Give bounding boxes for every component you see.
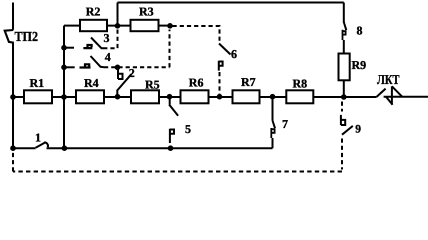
wire main row segment 2 [52,96,76,98]
resistor R2 [80,20,107,31]
svg-text:8: 8 [357,23,363,37]
contact 2 fixed hook (b) [118,68,123,79]
svg-text:9: 9 [355,124,361,136]
wire R2 left stub [64,25,80,27]
svg-text:R8: R8 [293,77,308,91]
wire contact8 to R9 [343,40,345,54]
wire main row segment 6 [260,96,287,98]
resistor R7 [233,90,260,103]
contact 4 stub [64,66,75,68]
node R3 right junction [167,23,173,29]
svg-text:6: 6 [231,47,237,61]
wire main row segment 7 [313,96,376,98]
dashed wire node up to R3 junction [169,30,171,68]
svg-text:4: 4 [105,50,111,64]
node main row x117.5 [115,94,121,100]
contact 8 [343,22,347,40]
dashed wire contact4 to node b2 and right to x169.5 [104,66,170,68]
contact 3 fixed hook [83,45,92,48]
svg-text:3: 3 [104,31,110,45]
node main row x64 [61,94,67,100]
contact 3 stub [64,47,74,49]
wire bottom row right part [47,147,273,149]
contact 1 blade with hook [36,142,48,148]
wire main row right end [384,96,428,98]
svg-text:R1: R1 [30,76,45,90]
contact 6 blade [219,44,231,55]
resistor R9 [339,54,350,81]
node rail x64 contact3 [61,45,67,51]
node bottom row x64 [62,145,68,151]
contact 6 fixed hook (p) [219,61,223,71]
contact TP2 (circuit breaker) [5,30,14,43]
node main row x343.8 [341,94,347,100]
resistor R3 [131,20,159,31]
wire bottom row left part [13,147,36,149]
dashed wire contact 6 to main row [219,72,221,95]
wire R9 to main row [343,80,345,97]
svg-text:R4: R4 [84,76,99,90]
wire main row segment 4 [159,96,181,98]
svg-text:ЛКТ: ЛКТ [377,72,400,87]
resistor R6 [181,90,209,103]
resistor R5 [131,90,159,103]
node main row x13 [10,94,16,100]
node main row x219.5 [217,94,223,100]
wire R2 to R3 [107,25,131,27]
wire R3 right stub [159,25,172,27]
svg-text:2: 2 [129,66,135,80]
dashed wire main row to contact 9 [341,102,343,112]
contact 7 [271,121,275,139]
node R2R3 junction [115,23,121,29]
svg-text:R3: R3 [139,4,154,18]
contact 5 fixed hook (p) [170,129,174,143]
node bottom row x13 [10,145,16,151]
node main row x272.5 [270,94,276,100]
wire main row segment 3 [104,96,131,98]
dashed bottom rail [13,171,342,173]
dashed wire bottom left corner up [12,152,14,172]
contact 9 blade [342,126,353,135]
svg-text:R6: R6 [189,76,204,90]
svg-text:R5: R5 [145,78,160,92]
svg-text:1: 1 [35,131,41,145]
svg-text:7: 7 [282,117,288,131]
wire main row segment 1 [13,96,24,98]
node rail x64 contact4 [61,65,67,71]
wire top rail [118,3,344,27]
contact 5 blade [169,105,178,116]
contact 5 stub [169,97,171,105]
contact 7 wire from main row [272,97,274,121]
node b2 [115,65,121,71]
node bottom row x170 [168,145,174,151]
dashed wire contact 9 down [341,139,343,170]
dashed wire R3 junction to contact 6 [173,26,220,42]
svg-text:R9: R9 [352,58,367,72]
wire main row segment 5 [209,96,233,98]
contact 9 fixed hook (b) [341,115,345,125]
node main row x169.5 [167,94,173,100]
svg-text:ТП2: ТП2 [15,29,39,44]
resistor R4 [76,90,104,103]
contact 3 blade [91,38,107,49]
wire left supply rail top [12,3,14,30]
contact LKT (pantograph contact) [377,86,403,105]
svg-text:R7: R7 [241,75,256,89]
resistor R8 [286,90,313,103]
contact 2 blade [117,74,131,96]
wire contact 7 down to bottom row [272,138,274,148]
svg-text:5: 5 [185,122,191,136]
svg-text:R2: R2 [86,4,101,18]
resistor R1 [24,90,52,103]
wire left rail lower [12,43,14,149]
contact 4 blade [91,56,105,67]
wire rail x=64 [63,26,65,149]
contact 4 fixed hook [80,64,91,67]
dashed wire R2R3 junction down to contact3 terminal [107,30,118,49]
